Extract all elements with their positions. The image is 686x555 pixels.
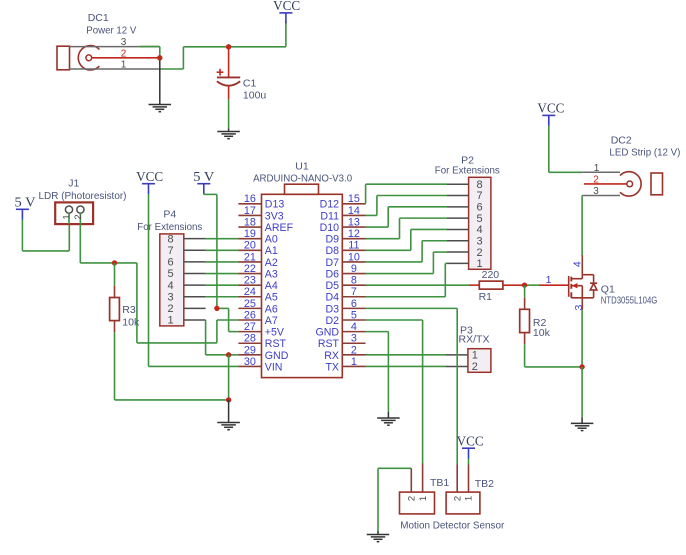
U1 pin 13 stub bbox=[342, 226, 365, 228]
svg-text:1: 1 bbox=[418, 496, 429, 501]
wire 5V node to U1 +5V bbox=[217, 307, 229, 309]
wire DC1 pin1 to VCC rail bbox=[161, 68, 183, 70]
connector J1 body bbox=[55, 202, 93, 224]
svg-text:R3: R3 bbox=[122, 304, 136, 316]
svg-text:D11: D11 bbox=[320, 210, 339, 222]
J1 pin stubs bbox=[68, 213, 70, 224]
svg-text:10k: 10k bbox=[533, 327, 551, 339]
wire RX to P3 bbox=[366, 354, 446, 356]
svg-text:8: 8 bbox=[167, 233, 173, 245]
svg-text:5: 5 bbox=[167, 268, 173, 280]
wire U1 to P2 pin 8 bbox=[365, 203, 367, 205]
wire source to node bbox=[581, 310, 583, 367]
DC1 pin 1 line bbox=[70, 68, 162, 70]
U1 pin 16 stub bbox=[238, 203, 261, 205]
connector P3 body bbox=[468, 349, 491, 373]
svg-text:5 V: 5 V bbox=[193, 169, 214, 184]
wire U1 to P2 pin 3 bbox=[366, 261, 423, 263]
P4 pin 7 stub bbox=[184, 249, 206, 251]
wire 5V left to J1 pin1 bbox=[21, 220, 23, 251]
svg-text:ARDUINO-NANO-V3.0: ARDUINO-NANO-V3.0 bbox=[253, 172, 352, 184]
svg-text:1: 1 bbox=[546, 274, 552, 286]
svg-text:RX/TX: RX/TX bbox=[459, 333, 490, 345]
DC2 pin 2 line bbox=[584, 183, 627, 185]
svg-text:26: 26 bbox=[244, 309, 256, 321]
junction 5V / P4 pin2 bbox=[214, 306, 219, 311]
svg-text:1: 1 bbox=[121, 60, 127, 71]
svg-text:4: 4 bbox=[571, 261, 583, 267]
P4 pin 8 stub bbox=[184, 238, 206, 240]
P2 pin 3 stub bbox=[447, 240, 469, 242]
U1 pin 3 stub bbox=[342, 342, 365, 344]
junction gate / R2 bbox=[522, 282, 527, 287]
svg-text:27: 27 bbox=[244, 321, 256, 333]
svg-text:13: 13 bbox=[348, 216, 360, 228]
svg-text:LED Strip (12 V): LED Strip (12 V) bbox=[609, 146, 680, 158]
P2 pin 8 stub bbox=[447, 183, 469, 185]
svg-text:19: 19 bbox=[244, 228, 256, 240]
ground G5 bottom bbox=[367, 535, 390, 542]
wire DC2 pin3 to Q1 drain bbox=[581, 196, 583, 256]
P4 pin 6 stub bbox=[184, 261, 206, 263]
U1 pin 14 stub bbox=[342, 214, 365, 216]
svg-text:2: 2 bbox=[593, 175, 599, 186]
wire D2 to TB1 pin1 bbox=[366, 319, 423, 321]
svg-text:2: 2 bbox=[476, 247, 482, 259]
wire U1 to P2 pin 6 bbox=[366, 226, 389, 228]
svg-text:3V3: 3V3 bbox=[265, 210, 284, 222]
svg-text:15: 15 bbox=[348, 193, 360, 205]
U1 pin 26 stub bbox=[238, 319, 261, 321]
svg-text:6: 6 bbox=[167, 257, 173, 269]
svg-text:4: 4 bbox=[351, 321, 357, 333]
svg-text:NTD3055L104G: NTD3055L104G bbox=[601, 295, 658, 307]
svg-text:TB1: TB1 bbox=[430, 477, 449, 489]
C1 plus sign bbox=[217, 69, 224, 76]
wire TB1 pin2 to ground bbox=[378, 467, 411, 469]
ground G4 right of U1 bbox=[377, 418, 400, 425]
svg-text:5: 5 bbox=[351, 309, 357, 321]
svg-text:C1: C1 bbox=[243, 77, 257, 89]
svg-text:VIN: VIN bbox=[265, 361, 283, 373]
U1 pin 24 stub bbox=[238, 296, 261, 298]
svg-text:A5: A5 bbox=[265, 292, 278, 304]
svg-text:18: 18 bbox=[244, 216, 256, 228]
svg-text:LDR (Photoresistor): LDR (Photoresistor) bbox=[39, 190, 127, 202]
svg-text:A0: A0 bbox=[265, 234, 278, 246]
svg-text:20: 20 bbox=[244, 240, 256, 252]
wire D5 to R1 bbox=[366, 284, 470, 286]
svg-text:29: 29 bbox=[244, 344, 256, 356]
svg-text:22: 22 bbox=[244, 263, 256, 275]
svg-text:VCC: VCC bbox=[457, 433, 484, 448]
svg-text:D13: D13 bbox=[265, 199, 285, 211]
svg-text:TB2: TB2 bbox=[475, 478, 494, 490]
wire P4 pin 4 to U1 A4 bbox=[206, 284, 239, 286]
svg-text:2: 2 bbox=[73, 214, 84, 219]
U1 pin 28 stub bbox=[238, 342, 261, 344]
connector DC2 body bbox=[620, 172, 641, 196]
svg-text:3: 3 bbox=[476, 235, 482, 247]
U1 pin 17 stub bbox=[238, 214, 261, 216]
ground G1 below DC1 bbox=[149, 105, 172, 112]
capacitor C1 bbox=[228, 47, 230, 77]
U1 pin 7 stub bbox=[342, 296, 365, 298]
svg-text:24: 24 bbox=[244, 286, 256, 298]
P4 pin 3 stub bbox=[184, 296, 206, 298]
U1 pin 4 stub bbox=[342, 331, 365, 333]
svg-text:3: 3 bbox=[167, 291, 173, 303]
svg-text:2: 2 bbox=[407, 496, 418, 501]
wire P4 pin1 to GND node bbox=[205, 320, 207, 355]
DC1 pin 3 line bbox=[70, 46, 160, 48]
transistor Q1 bbox=[569, 275, 598, 298]
svg-text:VCC: VCC bbox=[273, 0, 300, 13]
U1 pin 19 stub bbox=[238, 238, 261, 240]
wire P4 pin 7 to U1 A1 bbox=[206, 249, 239, 251]
svg-text:A7: A7 bbox=[265, 315, 278, 327]
wire DC1 pin3 to pin2 junction bbox=[140, 46, 160, 48]
svg-text:D12: D12 bbox=[320, 199, 340, 211]
P3 pin 1 stub bbox=[445, 354, 468, 356]
svg-text:1: 1 bbox=[351, 356, 357, 368]
wire VCC to TB2 pin1 bbox=[468, 459, 470, 465]
DC2 pin 3 line bbox=[582, 195, 620, 197]
svg-text:11: 11 bbox=[348, 240, 359, 252]
svg-text:D4: D4 bbox=[325, 292, 339, 304]
svg-text:TX: TX bbox=[325, 361, 339, 373]
wire DC1 ground drop bbox=[159, 58, 161, 104]
U1 pin 29 stub bbox=[238, 354, 261, 356]
svg-text:1: 1 bbox=[61, 214, 72, 219]
svg-text:7: 7 bbox=[351, 286, 357, 298]
svg-text:6: 6 bbox=[351, 298, 357, 310]
U1 pin 11 stub bbox=[342, 249, 365, 251]
svg-text:3: 3 bbox=[351, 333, 357, 345]
svg-text:3: 3 bbox=[573, 305, 585, 311]
U1 pin 8 stub bbox=[342, 284, 365, 286]
svg-text:10: 10 bbox=[348, 251, 360, 263]
wire D3 to TB2 pin2 bbox=[366, 307, 458, 309]
P4 pin 1 stub bbox=[184, 319, 206, 321]
svg-text:D9: D9 bbox=[325, 234, 339, 246]
svg-text:23: 23 bbox=[244, 275, 256, 287]
U1 pin 27 stub bbox=[238, 331, 261, 333]
wire U1 to P2 pin 7 bbox=[366, 214, 377, 216]
P3 pin 2 stub bbox=[445, 365, 468, 367]
junction DC1 pin2 node bbox=[157, 55, 162, 60]
svg-text:RST: RST bbox=[265, 338, 287, 350]
P2 pin 5 stub bbox=[447, 217, 469, 219]
svg-text:+5V: +5V bbox=[265, 327, 285, 339]
connector TB1 body bbox=[400, 492, 435, 514]
svg-text:16: 16 bbox=[244, 193, 256, 205]
svg-text:A3: A3 bbox=[265, 268, 278, 280]
svg-text:RST: RST bbox=[318, 338, 340, 350]
svg-text:1: 1 bbox=[167, 315, 173, 327]
TB2 pin 1 stub bbox=[468, 465, 470, 493]
resistor R1 bbox=[479, 281, 503, 289]
svg-text:1: 1 bbox=[464, 496, 475, 501]
svg-text:7: 7 bbox=[167, 245, 173, 257]
svg-text:D5: D5 bbox=[325, 280, 339, 292]
wire LDR node to A7 bbox=[115, 262, 137, 264]
svg-text:AREF: AREF bbox=[265, 222, 294, 234]
svg-text:A6: A6 bbox=[265, 303, 278, 315]
wire TX to P3 bbox=[366, 365, 446, 367]
svg-text:8: 8 bbox=[476, 179, 482, 191]
junction LDR / R3 bbox=[112, 260, 117, 265]
svg-text:7: 7 bbox=[476, 190, 482, 202]
Q1 drain pin bbox=[581, 255, 583, 275]
wire GND node to U1 GND bbox=[229, 354, 239, 356]
U1 pin 23 stub bbox=[238, 284, 261, 286]
DC1 pin 2 line bbox=[92, 57, 160, 59]
P4 pin 5 stub bbox=[184, 273, 206, 275]
U1 pin 20 stub bbox=[238, 249, 261, 251]
U1 pin 6 stub bbox=[342, 307, 365, 309]
U1 pin 9 stub bbox=[342, 273, 365, 275]
DC2 pin 1 line bbox=[582, 171, 620, 173]
wire VCC to DC2 pin1 bbox=[548, 126, 550, 173]
wire 5V to P4 pin 2 node bbox=[203, 193, 205, 195]
svg-text:Motion Detector Sensor: Motion Detector Sensor bbox=[400, 519, 504, 531]
U1 pin 12 stub bbox=[342, 238, 365, 240]
resistor R3 bbox=[114, 263, 116, 286]
wire P4 pin 3 to U1 A5 bbox=[206, 296, 239, 298]
U1 pin 21 stub bbox=[238, 261, 261, 263]
TB2 pin 2 stub bbox=[456, 465, 458, 493]
svg-text:U1: U1 bbox=[295, 161, 309, 173]
U1 pin 22 stub bbox=[238, 273, 261, 275]
P2 pin 6 stub bbox=[447, 206, 469, 208]
svg-text:D10: D10 bbox=[320, 222, 340, 234]
svg-text:2: 2 bbox=[167, 303, 173, 315]
U1 pin 1 stub bbox=[342, 365, 365, 367]
wire R2 to source node bbox=[524, 344, 526, 367]
svg-text:VCC: VCC bbox=[537, 101, 564, 116]
svg-text:VCC: VCC bbox=[136, 169, 163, 184]
U1 pin 30 stub bbox=[238, 365, 261, 367]
Q1 source pin bbox=[581, 298, 583, 310]
svg-text:2: 2 bbox=[472, 361, 478, 373]
svg-text:R1: R1 bbox=[479, 291, 493, 303]
svg-text:17: 17 bbox=[244, 205, 256, 217]
svg-text:21: 21 bbox=[244, 251, 256, 263]
wire VCC riser to VCC symbol bbox=[285, 21, 287, 47]
svg-text:DC2: DC2 bbox=[611, 134, 632, 146]
svg-text:For Extensions: For Extensions bbox=[435, 165, 500, 177]
wire VCC to VIN bbox=[148, 194, 150, 366]
wire source node to ground bbox=[581, 367, 583, 418]
svg-text:6: 6 bbox=[476, 202, 482, 214]
ground G6 below Q1 bbox=[571, 423, 594, 430]
TB1 pin 1 stub bbox=[422, 464, 424, 493]
svg-text:For Extensions: For Extensions bbox=[137, 221, 202, 233]
P2 pin 7 stub bbox=[447, 195, 469, 197]
svg-text:1: 1 bbox=[594, 163, 600, 174]
svg-text:220: 220 bbox=[482, 269, 500, 281]
svg-text:1: 1 bbox=[472, 350, 478, 362]
svg-text:100u: 100u bbox=[243, 90, 267, 102]
svg-text:25: 25 bbox=[244, 298, 256, 310]
wire VCC rail top bbox=[183, 46, 286, 48]
svg-text:A1: A1 bbox=[265, 245, 278, 257]
U1 pin 2 stub bbox=[342, 354, 365, 356]
wire R1 to gate node bbox=[503, 284, 525, 286]
svg-text:8: 8 bbox=[351, 275, 357, 287]
svg-text:P4: P4 bbox=[163, 209, 176, 221]
junction GND row bbox=[226, 352, 231, 357]
svg-text:3: 3 bbox=[121, 37, 127, 48]
U1 pin 25 stub bbox=[238, 307, 261, 309]
wire C1 to ground bbox=[228, 86, 230, 99]
junction source / R2 / ground bbox=[579, 364, 584, 369]
wire P4 pin 6 to U1 A2 bbox=[206, 261, 239, 263]
junction VCC / C1 bbox=[226, 44, 231, 49]
ground G3 below U1 bbox=[217, 423, 240, 430]
svg-text:J1: J1 bbox=[68, 178, 79, 190]
svg-text:4: 4 bbox=[476, 224, 482, 236]
svg-text:5: 5 bbox=[476, 213, 482, 225]
P2 pin 1 stub bbox=[447, 262, 469, 264]
svg-text:28: 28 bbox=[244, 333, 256, 345]
svg-text:12: 12 bbox=[348, 228, 360, 240]
junction GND / R3 loop bbox=[226, 397, 231, 402]
svg-text:3: 3 bbox=[593, 186, 599, 197]
svg-text:A4: A4 bbox=[265, 280, 278, 292]
svg-text:2: 2 bbox=[121, 48, 127, 59]
connector DC1 body bbox=[57, 46, 70, 70]
svg-text:DC1: DC1 bbox=[88, 12, 109, 24]
U1 top notch bbox=[285, 184, 319, 194]
connector P2 body bbox=[469, 177, 491, 269]
P4 pin 4 stub bbox=[184, 284, 206, 286]
svg-text:14: 14 bbox=[348, 205, 360, 217]
wire U1 to P2 pin 2 bbox=[366, 273, 434, 275]
svg-text:RX: RX bbox=[324, 350, 339, 362]
U1 pin 15 stub bbox=[342, 203, 365, 205]
svg-text:D7: D7 bbox=[325, 257, 339, 269]
svg-text:9: 9 bbox=[351, 263, 357, 275]
wire GND node down bbox=[228, 355, 230, 400]
svg-text:10k: 10k bbox=[122, 316, 140, 328]
ground G2 below C1 bbox=[217, 132, 240, 139]
wire to ground below U1 bbox=[228, 400, 230, 423]
TB1 pin 2 stub bbox=[410, 468, 412, 492]
wire P4 pin 5 to U1 A3 bbox=[206, 273, 239, 275]
wire P4 pin 8 to U1 A0 bbox=[206, 238, 239, 240]
U1 pin 5 stub bbox=[342, 319, 365, 321]
U1 pin 18 stub bbox=[238, 226, 261, 228]
wire U1 GND pin4 to ground bbox=[366, 331, 389, 333]
resistor R2 bbox=[524, 285, 526, 298]
wire J1 pin2 to R3 junction bbox=[79, 224, 81, 263]
svg-text:GND: GND bbox=[315, 327, 339, 339]
svg-text:5 V: 5 V bbox=[15, 195, 36, 210]
svg-text:Q1: Q1 bbox=[601, 283, 615, 295]
IC U1 body bbox=[262, 194, 343, 377]
svg-text:D2: D2 bbox=[325, 315, 339, 327]
wire R3 bottom loop to ground node bbox=[114, 332, 116, 400]
wire U1 to P2 pin 5 bbox=[366, 238, 400, 240]
svg-text:D3: D3 bbox=[325, 303, 339, 315]
svg-text:A2: A2 bbox=[265, 257, 278, 269]
P4 pin 2 stub bbox=[184, 307, 206, 309]
svg-text:2: 2 bbox=[351, 344, 357, 356]
svg-text:4: 4 bbox=[167, 280, 173, 292]
P2 pin 2 stub bbox=[447, 251, 469, 253]
wire U1 to P2 pin 1 bbox=[366, 296, 446, 298]
wire U1 to P2 pin 4 bbox=[366, 249, 411, 251]
connector TB2 body bbox=[446, 492, 480, 514]
connector P4 body bbox=[160, 234, 184, 326]
svg-text:30: 30 bbox=[244, 356, 256, 368]
P2 pin 4 stub bbox=[447, 228, 469, 230]
svg-text:2: 2 bbox=[452, 496, 463, 501]
svg-text:GND: GND bbox=[265, 350, 289, 362]
svg-text:D8: D8 bbox=[325, 245, 339, 257]
svg-text:Power 12 V: Power 12 V bbox=[86, 24, 136, 36]
U1 pin 10 stub bbox=[342, 261, 365, 263]
svg-text:D6: D6 bbox=[325, 268, 339, 280]
